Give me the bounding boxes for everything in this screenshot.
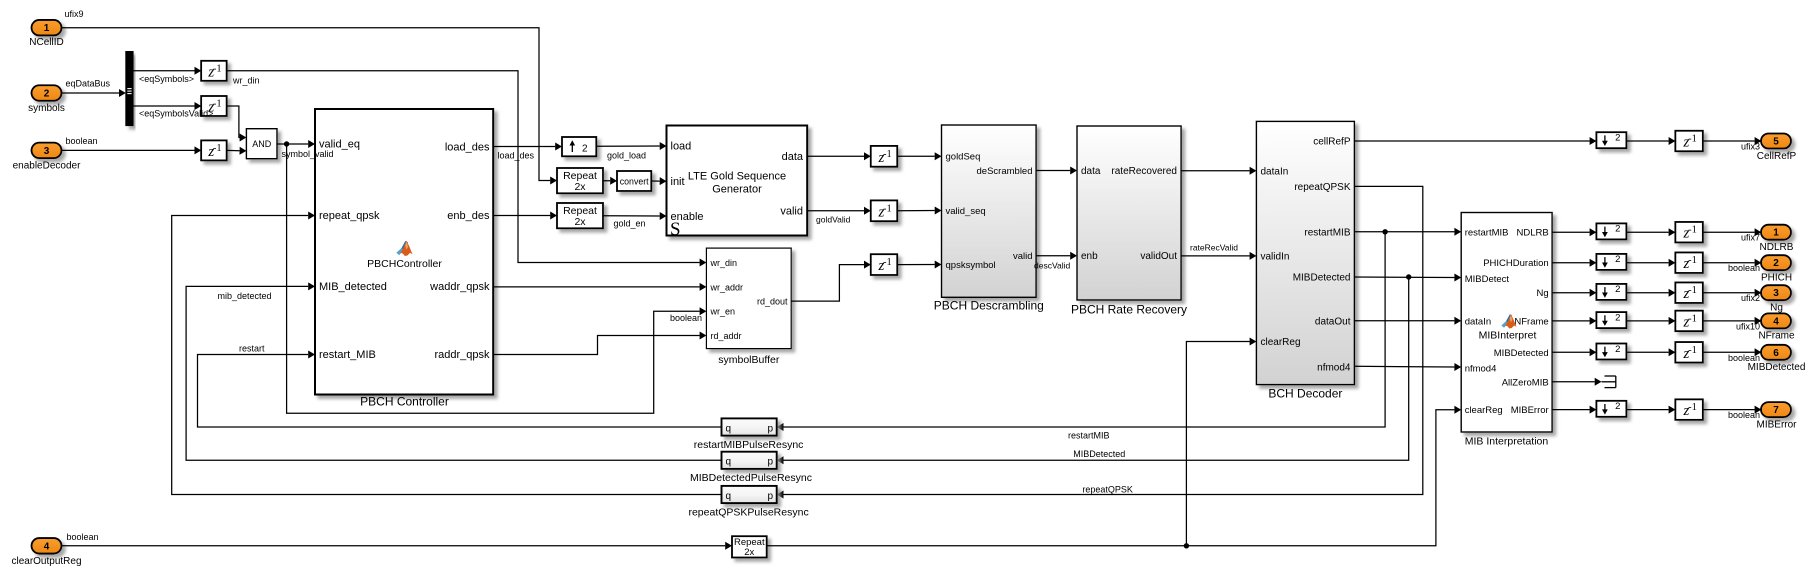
svg-text:clearReg: clearReg xyxy=(1261,337,1301,348)
inport 4 clearOutputReg xyxy=(11,532,98,567)
unit delay Z-1 (NDLRB) xyxy=(1675,222,1703,243)
svg-text:1: 1 xyxy=(44,23,50,34)
svg-text:enb_des: enb_des xyxy=(447,210,490,222)
inport 2 symbols xyxy=(28,79,110,115)
svg-text:PHICH: PHICH xyxy=(1761,273,1792,284)
wire rateRecValid to validIn xyxy=(1181,255,1250,257)
block LTE Gold Sequence Generator xyxy=(667,126,808,241)
wire MIBDetected to MIBInterpret xyxy=(1354,276,1454,278)
svg-text:restart_MIB: restart_MIB xyxy=(319,349,376,361)
wire downsample to delay (NFrame) xyxy=(1626,320,1669,322)
svg-text:wr_en: wr_en xyxy=(710,307,736,317)
wire mib_detected feedback to MIB_detected xyxy=(186,286,721,460)
svg-text:boolean: boolean xyxy=(66,136,98,146)
downsample by 2 (CellRefP) xyxy=(1596,132,1626,148)
repeat 2x block (init path) xyxy=(557,168,603,193)
svg-text:-1: -1 xyxy=(883,257,892,268)
downsample by 2 (Ng) xyxy=(1596,284,1626,300)
wire deScrambled to data xyxy=(1036,170,1070,172)
svg-text:3: 3 xyxy=(1773,288,1779,299)
svg-text:load_des: load_des xyxy=(498,151,535,161)
svg-text:2x: 2x xyxy=(574,216,586,228)
unit delay Z-1 (eqSymbols) xyxy=(201,61,227,81)
svg-text:goldValid: goldValid xyxy=(816,215,851,225)
wire clearOutputReg to repeat 2x xyxy=(62,545,726,547)
svg-text:PHICHDuration: PHICHDuration xyxy=(1483,258,1548,269)
svg-text:validOut: validOut xyxy=(1140,251,1177,262)
svg-text:p: p xyxy=(767,423,773,434)
svg-text:validIn: validIn xyxy=(1261,252,1290,263)
svg-text:NDLRB: NDLRB xyxy=(1516,228,1548,239)
svg-text:symbol_valid: symbol_valid xyxy=(282,149,334,159)
wire enb_des to repeat 2x xyxy=(493,215,550,217)
svg-text:-1: -1 xyxy=(213,99,222,110)
unit delay Z-1 (valid_seq) xyxy=(871,200,898,221)
svg-text:goldSeq: goldSeq xyxy=(946,152,981,163)
wire repeat to convert xyxy=(603,180,610,182)
svg-text:q: q xyxy=(726,491,732,502)
svg-text:q: q xyxy=(726,423,732,434)
svg-text:PBCHController: PBCHController xyxy=(367,258,442,270)
wire cellRefP to downsample xyxy=(1354,140,1589,142)
repeat 2x block (enable path) xyxy=(557,203,603,228)
outport 2 PHICH xyxy=(1728,255,1792,283)
downsample by 2 (PHICH) xyxy=(1596,254,1626,270)
wire NDLRB from MIBInterpret xyxy=(1552,231,1590,233)
svg-text:NFrame: NFrame xyxy=(1514,316,1548,327)
svg-text:data: data xyxy=(782,151,804,163)
svg-text:rd_addr: rd_addr xyxy=(711,331,742,341)
block MIB Interpretation xyxy=(1461,213,1552,433)
svg-text:<eqSymbolsValid>: <eqSymbolsValid> xyxy=(139,109,213,119)
svg-text:-1: -1 xyxy=(883,203,892,214)
svg-text:nfmod4: nfmod4 xyxy=(1465,363,1497,374)
inport 3 enableDecoder xyxy=(13,136,98,172)
svg-text:4: 4 xyxy=(1773,316,1779,327)
svg-text:1: 1 xyxy=(1773,228,1779,239)
svg-text:boolean: boolean xyxy=(1728,410,1760,420)
unit delay Z-1 (qpsksymbol) xyxy=(871,254,898,275)
svg-text:AllZeroMIB: AllZeroMIB xyxy=(1502,377,1549,388)
svg-text:rateRecovered: rateRecovered xyxy=(1111,166,1177,177)
svg-text:boolean: boolean xyxy=(670,313,702,323)
subsystem PBCH Rate Recovery xyxy=(1077,126,1181,300)
svg-text:2: 2 xyxy=(1615,254,1620,265)
wire Ng from MIBInterpret xyxy=(1552,292,1590,294)
svg-text:repeatQPSKPulseResync: repeatQPSKPulseResync xyxy=(688,507,808,519)
svg-text:4: 4 xyxy=(44,541,50,552)
svg-text:MIBDetect: MIBDetect xyxy=(1465,274,1510,285)
svg-text:deScrambled: deScrambled xyxy=(977,166,1033,177)
svg-text:restartMIB: restartMIB xyxy=(1465,228,1509,239)
svg-text:MIBError: MIBError xyxy=(1757,419,1798,430)
svg-text:2: 2 xyxy=(1615,312,1620,323)
wire MIBDetected to pulse resync xyxy=(784,277,1409,460)
node MIBDetected junction xyxy=(1406,274,1411,279)
svg-text:Ng: Ng xyxy=(1537,288,1549,299)
svg-text:MIBDetectedPulseResync: MIBDetectedPulseResync xyxy=(690,472,812,484)
svg-text:boolean: boolean xyxy=(1728,263,1760,273)
svg-text:2x: 2x xyxy=(574,181,586,193)
repeat 2x block (clear path) xyxy=(732,536,767,557)
terminator AllZeroMIB xyxy=(1602,376,1616,388)
svg-text:MIBDetected: MIBDetected xyxy=(1494,348,1549,359)
svg-text:cellRefP: cellRefP xyxy=(1313,137,1351,148)
block restartMIBPulseResync xyxy=(722,418,777,435)
svg-text:wr_din: wr_din xyxy=(710,258,738,268)
svg-text:2: 2 xyxy=(44,89,50,100)
svg-text:gold_load: gold_load xyxy=(607,151,646,161)
downsample by 2 (NDLRB) xyxy=(1596,223,1626,239)
svg-text:MIBError: MIBError xyxy=(1511,405,1549,416)
svg-text:valid_seq: valid_seq xyxy=(946,206,986,217)
wire downsample to delay (CellRefP) xyxy=(1626,140,1669,142)
svg-text:enb: enb xyxy=(1081,251,1098,262)
wire enableDecoder to unit delay xyxy=(62,149,195,151)
svg-text:MIB Interpretation: MIB Interpretation xyxy=(1465,436,1549,448)
subsystem BCH Decoder xyxy=(1256,121,1354,384)
svg-text:ufix2: ufix2 xyxy=(1741,293,1760,303)
wire dataOut to dataIn xyxy=(1354,320,1454,322)
svg-text:MIBDetected: MIBDetected xyxy=(1748,362,1806,373)
svg-text:waddr_qpsk: waddr_qpsk xyxy=(429,281,490,293)
wire delay to outport (MIBError) xyxy=(1703,409,1755,411)
wire clear branch to BCH clearReg xyxy=(1186,342,1249,546)
svg-text:restartMIBPulseResync: restartMIBPulseResync xyxy=(694,439,804,451)
svg-text:repeatQPSK: repeatQPSK xyxy=(1082,485,1133,495)
svg-text:valid: valid xyxy=(1013,251,1033,262)
wire symbol_valid to symbolBuffer wr_en xyxy=(287,144,700,413)
wire symbols to bus selector xyxy=(62,92,120,94)
wire load_des to upsample xyxy=(493,146,555,148)
outport 7 MIBError xyxy=(1728,402,1797,430)
svg-text:MIBInterpret: MIBInterpret xyxy=(1479,330,1537,342)
svg-text:symbols: symbols xyxy=(28,103,65,114)
svg-text:-1: -1 xyxy=(213,63,222,74)
wire delay to valid_seq xyxy=(897,210,934,212)
svg-text:ufix9: ufix9 xyxy=(65,9,84,19)
svg-text:data: data xyxy=(1081,166,1101,177)
wire delay to outport (CellRefP) xyxy=(1703,140,1755,142)
unit delay Z-1 (goldSeq) xyxy=(871,146,898,167)
svg-text:symbolBuffer: symbolBuffer xyxy=(718,354,780,366)
svg-text:MIBDetected: MIBDetected xyxy=(1293,273,1351,284)
wire delay to outport (Ng) xyxy=(1703,292,1755,294)
svg-text:mib_detected: mib_detected xyxy=(218,291,272,301)
svg-text:wr_din: wr_din xyxy=(232,76,260,86)
data type convert block xyxy=(617,171,651,191)
svg-text:3: 3 xyxy=(44,146,50,157)
wire PHICH from MIBInterpret xyxy=(1552,262,1590,264)
svg-text:2: 2 xyxy=(582,144,588,155)
wire NCellID to Repeat 2x (init path) xyxy=(62,28,551,181)
svg-text:restart: restart xyxy=(239,344,265,354)
svg-text:init: init xyxy=(671,176,685,188)
wire AllZeroMIB to terminator xyxy=(1552,381,1595,383)
wire rateRecovered to dataIn xyxy=(1181,170,1250,172)
node clear junction xyxy=(1184,543,1189,548)
svg-text:rateRecValid: rateRecValid xyxy=(1190,243,1238,253)
wire repeatQPSK feedback to repeat_qpsk xyxy=(172,216,722,495)
bus selector xyxy=(126,52,133,126)
svg-text:q: q xyxy=(726,457,732,468)
outport 3 Ng xyxy=(1741,285,1791,313)
svg-text:2x: 2x xyxy=(744,547,754,558)
svg-text:convert: convert xyxy=(620,176,649,186)
svg-text:boolean: boolean xyxy=(67,532,99,542)
unit delay Z-1 (Ng) xyxy=(1675,282,1703,303)
unit delay Z-1 (NFrame) xyxy=(1675,311,1703,332)
svg-text:NFrame: NFrame xyxy=(1758,331,1795,342)
wire restart feedback to restart_MIB xyxy=(198,355,722,428)
svg-text:2: 2 xyxy=(1615,401,1620,412)
svg-text:restartMIB: restartMIB xyxy=(1068,431,1110,441)
svg-text:restartMIB: restartMIB xyxy=(1304,227,1350,238)
unit delay Z-1 (MIBDetected) xyxy=(1675,342,1703,363)
wire MIBError from MIBInterpret xyxy=(1552,409,1590,411)
wire MIBDetected from MIBInterpret xyxy=(1552,351,1590,353)
wire gold data to delay xyxy=(807,155,864,157)
wire downsample to delay (MIBDetected) xyxy=(1626,351,1669,353)
svg-text:wr_addr: wr_addr xyxy=(710,283,744,293)
svg-text:-1: -1 xyxy=(883,149,892,160)
svg-text:AND: AND xyxy=(252,139,272,149)
svg-text:load_des: load_des xyxy=(445,141,490,153)
svg-text:dataOut: dataOut xyxy=(1315,316,1351,327)
svg-text:rd_dout: rd_dout xyxy=(757,297,788,307)
svg-text:p: p xyxy=(767,457,773,468)
wire restartMIB to MIBInterpret xyxy=(1354,231,1454,233)
svg-text:NDLRB: NDLRB xyxy=(1760,242,1794,253)
wire NFrame from MIBInterpret xyxy=(1552,320,1590,322)
wire delay to outport (NFrame) xyxy=(1703,320,1755,322)
svg-text:-1: -1 xyxy=(213,143,222,154)
svg-text:eqDataBus: eqDataBus xyxy=(66,79,111,89)
svg-text:dataIn: dataIn xyxy=(1465,316,1491,327)
svg-text:clearReg: clearReg xyxy=(1465,405,1503,416)
wire restartMIB to pulse resync xyxy=(784,232,1386,427)
svg-text:5: 5 xyxy=(1773,137,1779,148)
block symbolBuffer xyxy=(706,248,791,349)
svg-text:descValid: descValid xyxy=(1034,261,1070,271)
svg-text:BCH Decoder: BCH Decoder xyxy=(1268,387,1342,401)
svg-text:2: 2 xyxy=(1615,344,1620,355)
unit delay Z-1 (enableDecoder) xyxy=(201,140,227,160)
wire delay to qpsksymbol xyxy=(897,264,934,266)
svg-text:enableDecoder: enableDecoder xyxy=(13,161,81,172)
subsystem PBCH Descrambling xyxy=(942,125,1037,297)
svg-text:PBCH Descrambling: PBCH Descrambling xyxy=(934,299,1044,313)
wire rd_dout to delay xyxy=(791,265,864,302)
svg-text:-1: -1 xyxy=(1688,255,1697,266)
wire downsample to delay (Ng) xyxy=(1626,292,1669,294)
outport 4 NFrame xyxy=(1736,313,1795,341)
wire downsample to delay (PHICH) xyxy=(1626,262,1669,264)
svg-text:2: 2 xyxy=(1615,133,1620,144)
svg-text:PBCH Rate Recovery: PBCH Rate Recovery xyxy=(1071,303,1187,317)
wire downsample to delay (MIBError) xyxy=(1626,409,1669,411)
svg-text:nfmod4: nfmod4 xyxy=(1317,362,1351,373)
svg-text:<eqSymbols>: <eqSymbols> xyxy=(139,74,194,84)
wire nfmod4 to nfmod4 xyxy=(1354,365,1454,368)
svg-text:-1: -1 xyxy=(1688,134,1697,145)
unit delay Z-1 (eqSymbolsValid) xyxy=(201,96,227,116)
svg-text:gold_en: gold_en xyxy=(614,219,646,229)
wire clear to MIBInterpret clearReg xyxy=(767,410,1455,546)
downsample by 2 (MIBError) xyxy=(1596,401,1626,417)
svg-text:qpsksymbol: qpsksymbol xyxy=(946,260,996,271)
subsystem PBCH Controller xyxy=(315,109,493,395)
node restartMIB junction xyxy=(1382,229,1387,234)
svg-text:S: S xyxy=(670,219,681,240)
wire downsample to delay (NDLRB) xyxy=(1626,231,1669,233)
wire descValid to enb xyxy=(1036,255,1070,257)
svg-text:2: 2 xyxy=(1615,284,1620,295)
svg-text:MIB_detected: MIB_detected xyxy=(319,281,387,293)
svg-text:p: p xyxy=(767,491,773,502)
svg-text:2: 2 xyxy=(1615,224,1620,235)
wire bus eqSymbols to unit delay xyxy=(133,70,194,72)
wire raddr_qpsk to rd_addr xyxy=(493,336,699,355)
outport 6 MIBDetected xyxy=(1728,345,1805,373)
block repeatQPSKPulseResync xyxy=(722,486,777,503)
svg-text:6: 6 xyxy=(1773,348,1779,359)
svg-text:LTE Gold Sequence: LTE Gold Sequence xyxy=(688,171,786,183)
wire delay to goldSeq xyxy=(897,155,934,157)
svg-text:-1: -1 xyxy=(1688,345,1697,356)
svg-text:CellRefP: CellRefP xyxy=(1757,151,1797,162)
wire delay to outport (NDLRB) xyxy=(1703,231,1755,233)
wire convert to LTE Gold init xyxy=(651,180,659,182)
wire repeatQPSK to pulse resync xyxy=(784,186,1423,494)
upsample by 2 xyxy=(562,137,596,156)
wire delay to outport (MIBDetected) xyxy=(1703,351,1755,353)
inport 1 NCellID xyxy=(29,9,83,48)
svg-text:Generator: Generator xyxy=(712,184,762,196)
wire delay to outport (PHICH) xyxy=(1703,262,1755,264)
wire eqSymbolsValid delay to AND xyxy=(227,106,240,138)
downsample by 2 (MIBDetected) xyxy=(1596,344,1626,360)
svg-text:clearOutputReg: clearOutputReg xyxy=(11,556,81,567)
wire gold_en to LTE Gold enable xyxy=(603,215,660,217)
wire bus eqSymbolsValid to unit delay xyxy=(133,105,194,107)
svg-text:-1: -1 xyxy=(1688,285,1697,296)
unit delay Z-1 (MIBError) xyxy=(1675,399,1703,420)
svg-text:2: 2 xyxy=(1773,258,1779,269)
svg-text:-1: -1 xyxy=(1688,225,1697,236)
svg-text:7: 7 xyxy=(1773,405,1779,416)
svg-text:ufix10: ufix10 xyxy=(1736,321,1760,331)
node symbol_valid junction xyxy=(284,141,289,146)
wire wr_din from delay to symbolBuffer xyxy=(227,71,700,263)
svg-text:NCellID: NCellID xyxy=(29,37,63,48)
svg-text:ufix7: ufix7 xyxy=(1741,233,1760,243)
svg-text:-1: -1 xyxy=(1688,402,1697,413)
wire enable delay to AND xyxy=(227,149,240,151)
wire gold_load to LTE Gold load xyxy=(596,145,659,147)
unit delay Z-1 (CellRefP) xyxy=(1675,131,1703,152)
svg-text:repeat_qpsk: repeat_qpsk xyxy=(319,210,380,222)
block MIBDetectedPulseResync xyxy=(722,452,777,469)
svg-text:valid: valid xyxy=(780,205,803,217)
svg-text:raddr_qpsk: raddr_qpsk xyxy=(434,349,490,361)
logic gate AND xyxy=(246,129,277,159)
svg-text:-1: -1 xyxy=(1688,313,1697,324)
unit delay Z-1 (PHICH) xyxy=(1675,252,1703,273)
wire waddr_qpsk to wr_addr xyxy=(493,286,699,288)
wire goldValid to delay xyxy=(807,210,864,212)
svg-text:MIBDetected: MIBDetected xyxy=(1073,449,1125,459)
outport 1 NDLRB xyxy=(1741,225,1794,253)
outport 5 CellRefP xyxy=(1741,134,1797,162)
svg-text:Ng: Ng xyxy=(1770,303,1783,314)
svg-text:dataIn: dataIn xyxy=(1261,166,1289,177)
svg-text:repeatQPSK: repeatQPSK xyxy=(1294,182,1350,193)
downsample by 2 (NFrame) xyxy=(1596,312,1626,328)
wire AND symbol_valid to valid_eq xyxy=(277,143,308,145)
svg-text:load: load xyxy=(671,141,692,153)
svg-text:PBCH Controller: PBCH Controller xyxy=(360,395,449,409)
